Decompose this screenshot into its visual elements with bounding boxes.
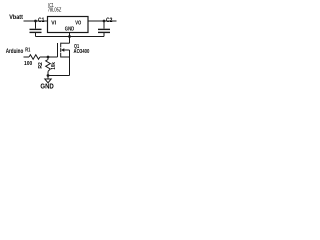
svg-text:R2: R2	[38, 62, 44, 69]
svg-text:VI: VI	[51, 21, 56, 27]
svg-text:C1: C1	[38, 17, 45, 24]
svg-text:AO3400: AO3400	[74, 49, 90, 55]
svg-text:VO: VO	[75, 21, 81, 27]
svg-text:R1: R1	[25, 48, 30, 54]
svg-text:100: 100	[24, 61, 32, 67]
svg-text:GND: GND	[65, 26, 74, 32]
svg-text:GND: GND	[40, 84, 53, 91]
svg-text:Vbatt: Vbatt	[9, 14, 23, 21]
svg-text:Arduino: Arduino	[6, 48, 24, 55]
svg-text:C2: C2	[106, 17, 113, 24]
svg-text:78L05Z: 78L05Z	[48, 7, 62, 13]
svg-text:10k: 10k	[51, 62, 57, 69]
